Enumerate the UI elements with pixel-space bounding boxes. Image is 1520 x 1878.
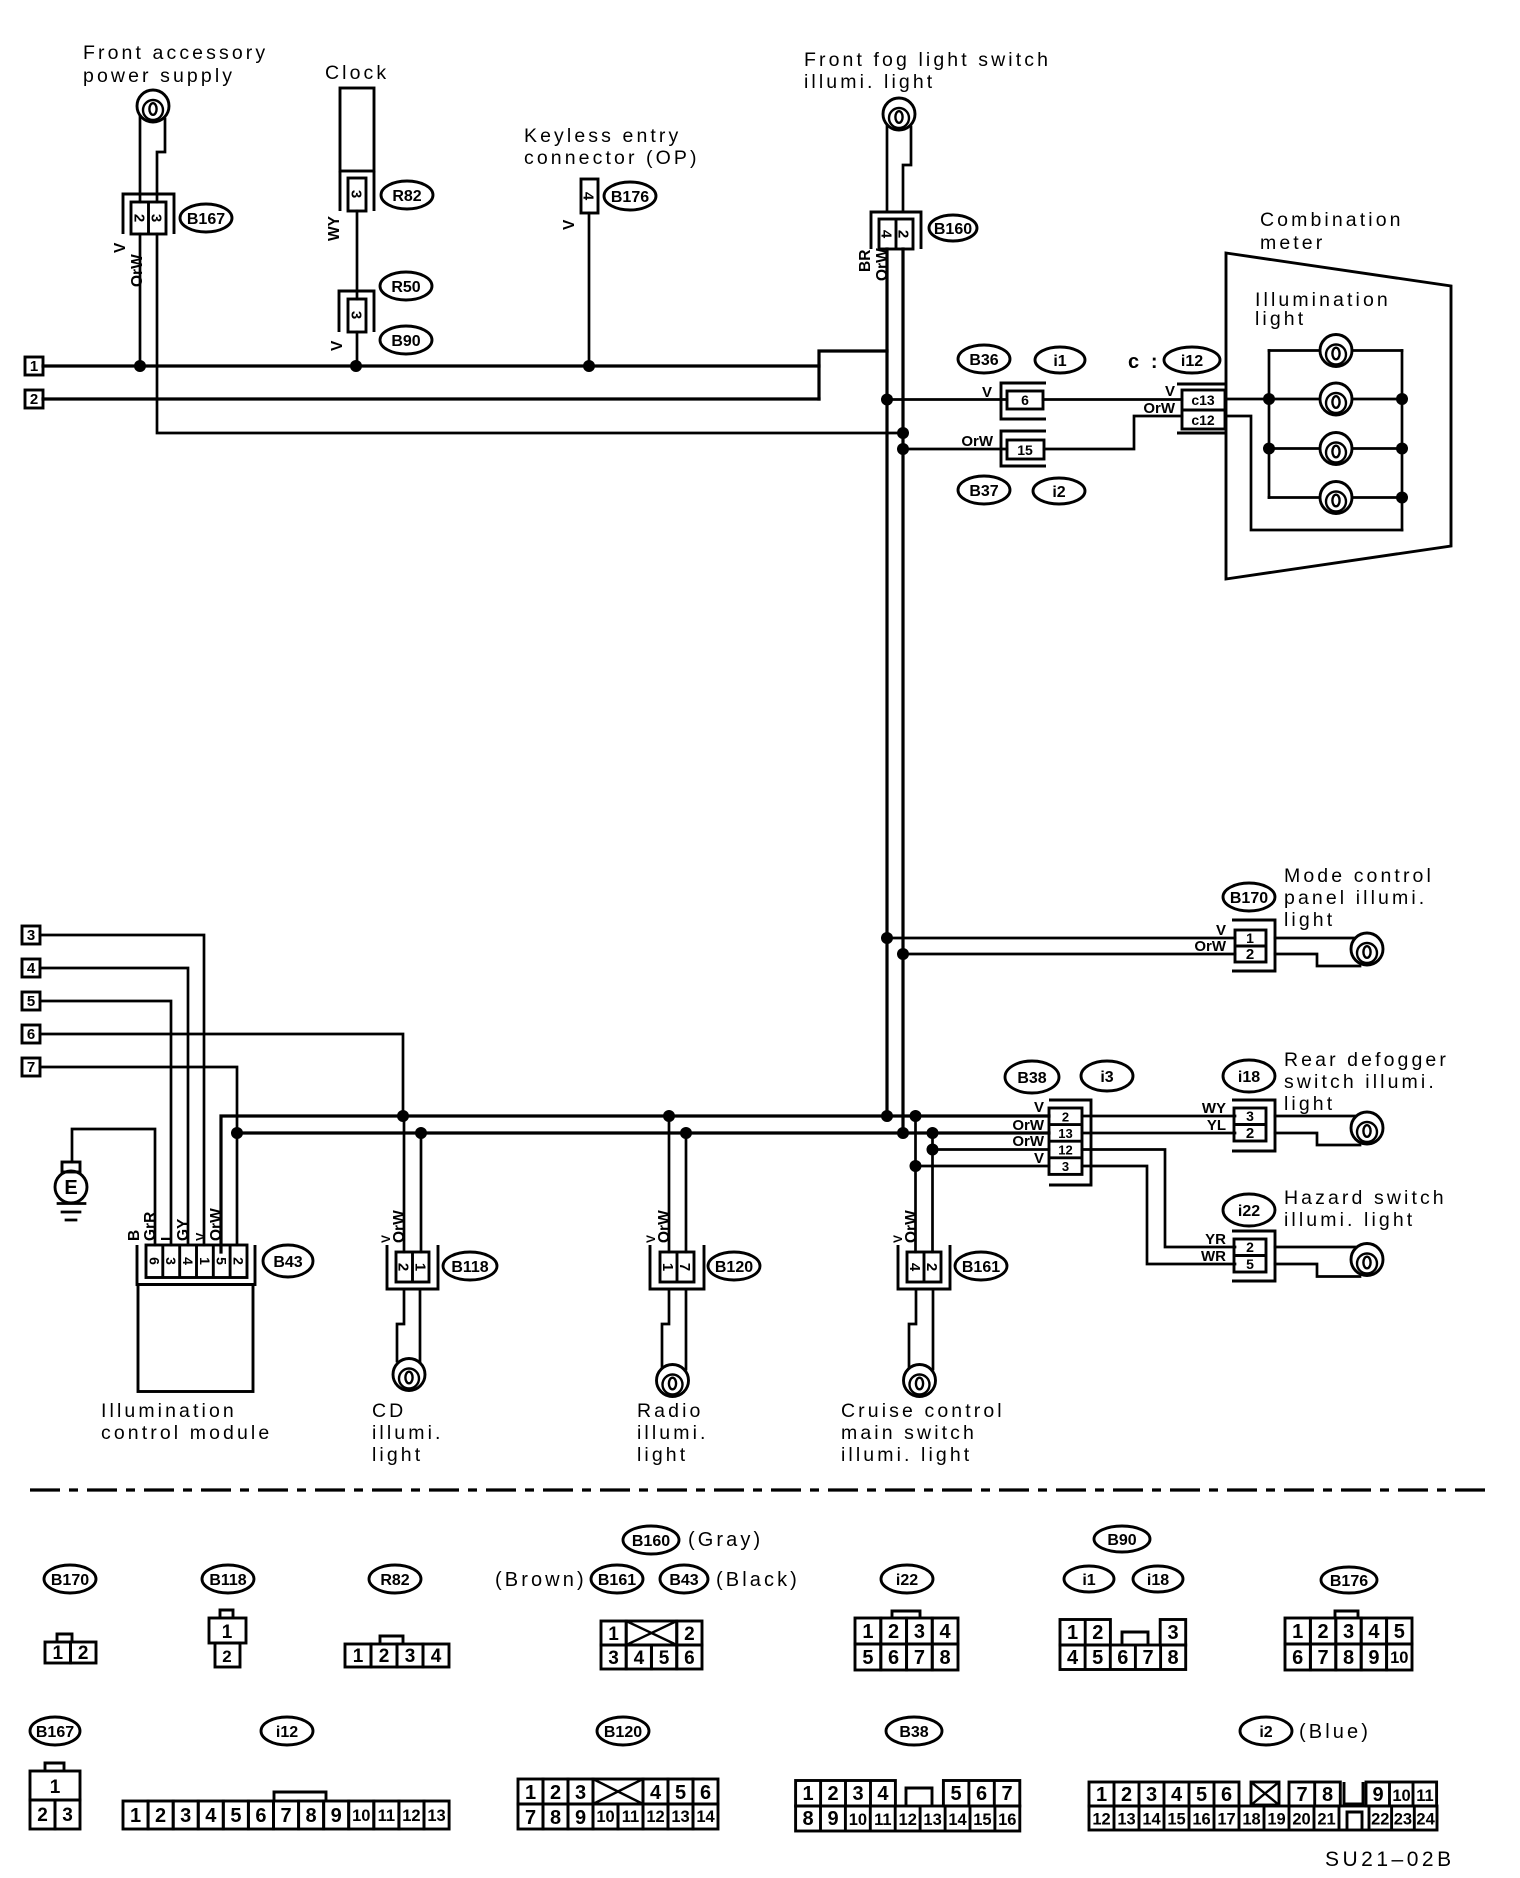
- node 4 (terminal box): [22, 959, 40, 977]
- svg-text:SU21–02B: SU21–02B: [1325, 1848, 1455, 1871]
- svg-text:illumi.: illumi.: [372, 1422, 444, 1444]
- connector label B176: [604, 182, 656, 210]
- label: Mode control panel illumi. light: [1284, 865, 1434, 931]
- svg-text:3: 3: [27, 927, 35, 944]
- connector label B170: [1223, 883, 1275, 911]
- face view connector B120: [518, 1779, 718, 1829]
- svg-text:i2: i2: [1052, 484, 1065, 501]
- svg-text:21: 21: [1317, 1811, 1335, 1829]
- svg-text:4: 4: [431, 1646, 442, 1667]
- svg-text:7: 7: [525, 1807, 536, 1829]
- face view connector i1/i18: [1060, 1620, 1186, 1670]
- svg-text:2: 2: [395, 1263, 412, 1271]
- svg-text:4: 4: [878, 230, 895, 239]
- svg-text:OrW: OrW: [129, 254, 146, 287]
- svg-text:2: 2: [923, 1263, 940, 1271]
- svg-text:connector (OP): connector (OP): [524, 147, 700, 169]
- svg-text:16: 16: [1192, 1811, 1210, 1829]
- svg-text:1: 1: [412, 1263, 429, 1271]
- wire illumination bus V: [221, 1110, 1049, 1252]
- wire B38 row12 from OrW branch: [933, 1148, 1050, 1151]
- wire colour labels V / OrW at B120: [644, 1210, 673, 1243]
- label: Cruise control main switch illumi. light: [841, 1400, 1005, 1466]
- svg-text:1: 1: [525, 1782, 536, 1804]
- svg-text:B170: B170: [1230, 890, 1268, 907]
- connector B160: [871, 212, 921, 249]
- face label i22: [881, 1565, 933, 1593]
- svg-text:R82: R82: [380, 1572, 409, 1589]
- face label i18: [1133, 1566, 1183, 1592]
- svg-text:2: 2: [1246, 1125, 1254, 1142]
- svg-text:7: 7: [1318, 1647, 1329, 1669]
- svg-text:1: 1: [1246, 930, 1254, 946]
- connector B90: [339, 291, 374, 332]
- face label i1: [1064, 1566, 1114, 1592]
- svg-text:Front accessory: Front accessory: [83, 42, 268, 64]
- svg-text:10: 10: [596, 1808, 614, 1826]
- svg-text:power supply: power supply: [83, 65, 235, 87]
- label: Keyless entry connector (OP): [524, 125, 700, 169]
- connector B118: [387, 1245, 438, 1289]
- svg-text:i18: i18: [1238, 1069, 1260, 1086]
- connector label B43: [263, 1245, 313, 1277]
- wire clock R82 to B90, WY: [326, 211, 357, 299]
- svg-text:4: 4: [580, 192, 597, 201]
- svg-text:B90: B90: [1107, 1532, 1136, 1549]
- svg-text:12: 12: [1058, 1143, 1072, 1158]
- svg-text:4: 4: [906, 1263, 923, 1272]
- svg-text:B43: B43: [273, 1254, 302, 1271]
- svg-text:8: 8: [550, 1807, 561, 1829]
- sheet code SU21-02B: [1325, 1848, 1455, 1871]
- svg-text:light: light: [372, 1444, 423, 1466]
- connector label B36: [958, 345, 1010, 373]
- svg-text:3: 3: [1167, 1622, 1178, 1644]
- svg-text:B38: B38: [1017, 1070, 1046, 1087]
- svg-text:B37: B37: [969, 483, 998, 500]
- svg-text:20: 20: [1292, 1811, 1310, 1829]
- svg-text:OrW: OrW: [1012, 1117, 1045, 1134]
- svg-text:5: 5: [1394, 1621, 1405, 1643]
- svg-text:3: 3: [1062, 1159, 1069, 1174]
- svg-text:11: 11: [874, 1811, 891, 1829]
- svg-text:13: 13: [1058, 1126, 1072, 1141]
- svg-text:2: 2: [155, 1805, 166, 1827]
- connector B176 (keyless): [580, 179, 598, 213]
- svg-text:B43: B43: [669, 1572, 698, 1589]
- svg-text:6: 6: [146, 1257, 162, 1265]
- svg-text:light: light: [637, 1444, 688, 1466]
- svg-text:15: 15: [1017, 442, 1033, 458]
- svg-text:B167: B167: [36, 1724, 74, 1741]
- svg-text:5: 5: [659, 1648, 670, 1669]
- svg-text:5: 5: [862, 1647, 873, 1669]
- meter lamp left rail: [1263, 351, 1275, 498]
- connector label B38: [1005, 1061, 1059, 1093]
- connector B120: [650, 1245, 704, 1289]
- svg-text:7: 7: [914, 1647, 925, 1669]
- svg-text:2: 2: [222, 1647, 231, 1666]
- svg-text:Rear defogger: Rear defogger: [1284, 1049, 1449, 1071]
- face view connector B160/B161/B43: [601, 1621, 702, 1669]
- clock body: [340, 88, 374, 171]
- svg-text:illumi. light: illumi. light: [804, 71, 935, 93]
- svg-text:3: 3: [163, 1257, 179, 1265]
- svg-text:B38: B38: [899, 1724, 928, 1741]
- illumination control module body: [138, 1285, 253, 1392]
- wires B161 to lamp: [909, 1289, 933, 1369]
- face view connector R82: [345, 1636, 449, 1667]
- svg-text:OrW: OrW: [208, 1208, 225, 1241]
- svg-text:Illumination: Illumination: [101, 1400, 237, 1422]
- svg-text:12: 12: [646, 1808, 664, 1826]
- svg-text:light: light: [1284, 1093, 1335, 1115]
- svg-text:1: 1: [130, 1805, 141, 1827]
- svg-text:panel illumi.: panel illumi.: [1284, 887, 1427, 909]
- connector label B161: [955, 1252, 1007, 1280]
- face label B161: [591, 1565, 643, 1593]
- wire step joining bus1/bus2 to B160 pin4 line: [819, 351, 887, 399]
- connector B43: [137, 1245, 255, 1285]
- meter illumination lamp 4: [1320, 482, 1352, 514]
- svg-text:5: 5: [675, 1782, 686, 1804]
- svg-text:5: 5: [1092, 1647, 1103, 1669]
- wire illumination bus OrW: [231, 1127, 1049, 1139]
- lamp mode control panel illumi.: [1351, 933, 1383, 965]
- svg-text:4: 4: [1067, 1647, 1079, 1669]
- wire bus 2: [43, 397, 819, 400]
- svg-text:7: 7: [27, 1059, 35, 1076]
- svg-text:1: 1: [222, 1622, 233, 1643]
- face view connector B170: [45, 1634, 96, 1664]
- svg-text:4: 4: [180, 1257, 196, 1265]
- face label B170: [44, 1565, 96, 1593]
- svg-text:12: 12: [899, 1811, 917, 1829]
- svg-text:i2: i2: [1259, 1724, 1272, 1741]
- svg-text:4: 4: [940, 1621, 952, 1643]
- separator dashed line: [30, 1488, 1492, 1491]
- svg-text:1: 1: [353, 1646, 364, 1667]
- connector label R50: [380, 272, 432, 300]
- svg-text:GY: GY: [175, 1218, 192, 1241]
- wire colour label V at B90: [329, 340, 346, 351]
- svg-text:i22: i22: [1238, 1203, 1260, 1220]
- connector label i22: [1223, 1194, 1275, 1226]
- svg-text:4: 4: [650, 1782, 662, 1804]
- svg-text:3: 3: [1146, 1784, 1157, 1806]
- svg-text:GrR: GrR: [142, 1212, 159, 1241]
- svg-text:BR: BR: [857, 250, 874, 272]
- svg-text:(Gray): (Gray): [688, 1529, 763, 1551]
- wire from terminal 5 to B43: [40, 1001, 171, 1245]
- svg-text:V: V: [194, 1232, 208, 1241]
- wire colour labels at B43: B GrR L GY V OrW: [126, 1208, 225, 1241]
- svg-text:6: 6: [976, 1783, 987, 1805]
- svg-text:OrW: OrW: [656, 1210, 673, 1243]
- face label B90: [1094, 1526, 1150, 1552]
- svg-text:meter: meter: [1260, 232, 1325, 254]
- svg-text:B: B: [126, 1230, 143, 1241]
- svg-text:Clock: Clock: [325, 62, 389, 84]
- connector B170: [1232, 920, 1275, 971]
- face view connector i12: [123, 1792, 449, 1829]
- svg-text:8: 8: [306, 1805, 317, 1827]
- svg-text:15: 15: [973, 1811, 991, 1829]
- svg-text:4: 4: [1171, 1784, 1183, 1806]
- svg-text:13: 13: [671, 1808, 689, 1826]
- wire V to combination meter, label V: [887, 384, 1182, 401]
- wires B170 to lamp: [1275, 938, 1360, 966]
- svg-text:c13: c13: [1191, 392, 1215, 408]
- wire V inside meter to lamp rail: [1226, 398, 1269, 401]
- connector B36/i1 pin 6: [1001, 383, 1046, 419]
- svg-text:2: 2: [131, 214, 148, 222]
- svg-text:2: 2: [1318, 1621, 1329, 1643]
- svg-text:2: 2: [37, 1805, 48, 1826]
- svg-text:B176: B176: [611, 189, 649, 206]
- svg-text:13: 13: [1117, 1811, 1135, 1829]
- svg-text:6: 6: [27, 1026, 35, 1043]
- svg-text:15: 15: [1167, 1811, 1185, 1829]
- svg-text:5: 5: [230, 1805, 241, 1827]
- node 1 (terminal box): [25, 357, 43, 375]
- svg-text:18: 18: [1242, 1811, 1260, 1829]
- labels WY / YL at i18: [1202, 1100, 1226, 1134]
- svg-text:V: V: [561, 219, 578, 230]
- wire trunk OrW (B160 pin2) down to illumination bus: [897, 249, 909, 1139]
- connector R82: [340, 171, 374, 211]
- svg-text:4: 4: [1368, 1621, 1380, 1643]
- svg-text:OrW: OrW: [961, 433, 994, 450]
- face label B43: [660, 1565, 708, 1593]
- svg-text:3: 3: [405, 1646, 416, 1667]
- labels V / OrW at B170: [1194, 922, 1227, 955]
- wire colour labels BR / OrW at B160: [857, 248, 891, 281]
- lamp cruise control main switch illumi.: [904, 1365, 936, 1397]
- face view connector B176: [1285, 1611, 1412, 1670]
- svg-text:11: 11: [622, 1808, 639, 1826]
- svg-text:illumi. light: illumi. light: [841, 1444, 972, 1466]
- connector label i2: [1033, 478, 1085, 504]
- face view connector B167: [30, 1763, 80, 1829]
- label: Illumination control module: [101, 1400, 272, 1444]
- wire bus 1: [43, 364, 819, 367]
- svg-text:3: 3: [914, 1621, 925, 1643]
- svg-text:i22: i22: [896, 1572, 918, 1589]
- svg-text:V: V: [329, 340, 346, 351]
- svg-text:2: 2: [895, 230, 912, 238]
- svg-text:2: 2: [550, 1782, 561, 1804]
- face label i2: [1240, 1717, 1292, 1745]
- label c :: [1128, 351, 1161, 373]
- wires bus to B118: [404, 1116, 421, 1252]
- svg-text:V: V: [982, 384, 992, 401]
- connector B38/i3: [1049, 1100, 1091, 1185]
- label: CD illumi. light: [372, 1400, 444, 1466]
- svg-text:2: 2: [1246, 1239, 1254, 1255]
- svg-text:YR: YR: [1205, 1231, 1226, 1248]
- svg-text:8: 8: [803, 1808, 814, 1830]
- face view connector i22: [855, 1611, 958, 1670]
- svg-text:Front fog light switch: Front fog light switch: [804, 49, 1051, 71]
- wire B176 down to bus 1: [583, 213, 595, 372]
- lamp rear defogger switch illumi.: [1351, 1112, 1383, 1144]
- node 6 (terminal box): [22, 1025, 40, 1043]
- svg-text:1: 1: [1096, 1784, 1107, 1806]
- svg-text:6: 6: [1117, 1647, 1128, 1669]
- connector label B167: [180, 204, 232, 232]
- wire lamp to connector B167: [140, 117, 165, 202]
- svg-text:i12: i12: [276, 1724, 298, 1741]
- svg-text:B90: B90: [391, 333, 420, 350]
- wires bus to B120: [669, 1116, 686, 1252]
- wire from terminal 3 to B43: [40, 935, 204, 1245]
- wires i18 to lamp: [1275, 1116, 1360, 1145]
- svg-text:Keyless entry: Keyless entry: [524, 125, 681, 147]
- svg-text:OrW: OrW: [1012, 1133, 1045, 1150]
- label: Illumination light: [1255, 289, 1391, 330]
- svg-text:3: 3: [62, 1805, 73, 1826]
- face label B160: [623, 1526, 679, 1554]
- svg-text:V: V: [1216, 922, 1226, 939]
- svg-text:4: 4: [27, 960, 36, 977]
- svg-text:14: 14: [696, 1808, 715, 1826]
- svg-text:19: 19: [1267, 1811, 1285, 1829]
- svg-text:3: 3: [348, 190, 365, 198]
- labels YR / WR at i22: [1201, 1231, 1226, 1265]
- svg-text:2: 2: [1246, 946, 1254, 963]
- svg-text:main switch: main switch: [841, 1422, 977, 1444]
- face view connector i2: [1089, 1782, 1437, 1830]
- svg-text:7: 7: [1296, 1784, 1307, 1806]
- node 7 (terminal box): [22, 1058, 40, 1076]
- svg-text:V: V: [1165, 383, 1175, 400]
- svg-text:4: 4: [877, 1783, 889, 1805]
- svg-text:5: 5: [27, 993, 35, 1010]
- wire colour labels at B38 rows: [1012, 1099, 1045, 1167]
- svg-text:1: 1: [862, 1621, 873, 1643]
- svg-text:5: 5: [214, 1257, 230, 1265]
- svg-text:3: 3: [852, 1783, 863, 1805]
- svg-text:(Black): (Black): [716, 1569, 800, 1591]
- svg-text:3: 3: [148, 214, 165, 222]
- label (Gray): [688, 1529, 763, 1551]
- svg-text:2: 2: [231, 1257, 247, 1265]
- connector B167: [123, 194, 174, 234]
- wire colour label V at B176: [561, 219, 578, 230]
- wire B38 row3 V to hazard WR: [916, 1166, 1236, 1264]
- svg-text:2: 2: [888, 1621, 899, 1643]
- combination meter body: [1226, 253, 1451, 579]
- svg-text:2: 2: [30, 391, 38, 408]
- lamp radio illumi.: [657, 1365, 689, 1397]
- svg-text:2: 2: [379, 1646, 390, 1667]
- connector B161: [898, 1245, 950, 1289]
- connector label R82: [381, 181, 433, 209]
- svg-text:8: 8: [940, 1647, 951, 1669]
- svg-text:B118: B118: [209, 1572, 246, 1589]
- svg-text:(Brown): (Brown): [495, 1569, 587, 1591]
- svg-text:2: 2: [684, 1624, 695, 1645]
- wire B38 row12 OrW to hazard YR: [1082, 1150, 1235, 1248]
- svg-text:12: 12: [1092, 1811, 1110, 1829]
- svg-text:illumi.: illumi.: [637, 1422, 709, 1444]
- svg-text:7: 7: [1002, 1783, 1013, 1805]
- svg-text:OrW: OrW: [391, 1210, 408, 1243]
- label: Hazard switch illumi. light: [1284, 1187, 1447, 1231]
- svg-text:5: 5: [1246, 1256, 1254, 1272]
- svg-text:2: 2: [827, 1783, 838, 1805]
- label: Front accessory power supply: [83, 42, 268, 87]
- svg-text:2: 2: [1121, 1784, 1132, 1806]
- svg-text:B160: B160: [632, 1533, 670, 1550]
- connector label B37: [958, 476, 1010, 504]
- lamp CD illumi.: [393, 1359, 425, 1391]
- svg-text:OrW: OrW: [1194, 938, 1227, 955]
- svg-text:B161: B161: [598, 1572, 636, 1589]
- wire OrW return inside meter: [1226, 416, 1402, 530]
- svg-text:light: light: [1255, 308, 1306, 330]
- svg-text:Radio: Radio: [637, 1400, 703, 1422]
- svg-text:R50: R50: [391, 279, 420, 296]
- svg-text:14: 14: [948, 1811, 967, 1829]
- face view connector B118: [209, 1610, 246, 1667]
- svg-text:11: 11: [378, 1807, 395, 1825]
- node 5 (terminal box): [22, 992, 40, 1010]
- svg-text:1: 1: [659, 1263, 676, 1271]
- meter lamp right rail: [1396, 351, 1408, 531]
- wire ground E to B43 pin6: [72, 1129, 155, 1245]
- svg-text:1: 1: [197, 1257, 213, 1265]
- svg-text:i18: i18: [1147, 1572, 1169, 1589]
- face label R82: [369, 1565, 421, 1593]
- svg-text:B36: B36: [969, 352, 998, 369]
- wire lamp to connector B160: [887, 126, 911, 212]
- wires B118 to lamp: [397, 1289, 420, 1362]
- label: Front fog light switch illumi. light: [804, 49, 1051, 93]
- svg-text:6: 6: [1292, 1647, 1303, 1669]
- wires B120 to lamp: [662, 1289, 686, 1369]
- svg-text:7: 7: [1142, 1647, 1153, 1669]
- meter illumination lamp 3: [1320, 433, 1352, 465]
- meter illumination lamp 2: [1320, 383, 1352, 415]
- svg-text:V: V: [112, 242, 129, 253]
- wire trunk V (B160 pin4) down to illumination bus: [881, 249, 893, 1122]
- svg-text:9: 9: [575, 1807, 586, 1829]
- svg-text:7: 7: [280, 1805, 291, 1827]
- wire B167 pin2 V down to bus 1: [134, 234, 146, 372]
- labels V / OrW at c13,c12: [1143, 383, 1176, 417]
- svg-text:4: 4: [205, 1805, 217, 1827]
- wire colour labels V / OrW at B118: [379, 1210, 408, 1243]
- svg-text:12: 12: [402, 1807, 420, 1825]
- svg-text:c :: c :: [1128, 351, 1161, 373]
- label: Rear defogger switch illumi. light: [1284, 1049, 1449, 1115]
- wire branches to B170: [887, 938, 1235, 954]
- meter illumination lamp 1: [1320, 335, 1352, 367]
- lamp hazard switch illumi.: [1351, 1244, 1383, 1276]
- wire B90 down to bus 1: [350, 332, 362, 372]
- svg-text:B161: B161: [962, 1259, 1000, 1276]
- svg-text:10: 10: [352, 1807, 370, 1825]
- svg-text:OrW: OrW: [903, 1210, 920, 1243]
- svg-text:22: 22: [1371, 1811, 1389, 1829]
- svg-text:B120: B120: [604, 1724, 642, 1741]
- svg-text:1: 1: [608, 1624, 619, 1645]
- svg-text:YL: YL: [1207, 1117, 1226, 1134]
- wire from terminal 4 to B43: [40, 968, 188, 1245]
- svg-text:light: light: [1284, 909, 1335, 931]
